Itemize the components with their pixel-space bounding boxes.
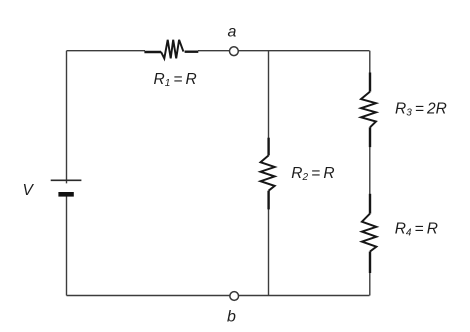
- svg-text:b: b: [227, 309, 236, 326]
- svg-text:V: V: [23, 182, 35, 199]
- svg-text:a: a: [228, 24, 237, 41]
- svg-text:R4 = R: R4 = R: [395, 221, 438, 239]
- svg-text:R3 = 2R: R3 = 2R: [395, 101, 447, 119]
- svg-text:R2 = R: R2 = R: [291, 165, 334, 183]
- svg-text:R1 = R: R1 = R: [154, 71, 197, 89]
